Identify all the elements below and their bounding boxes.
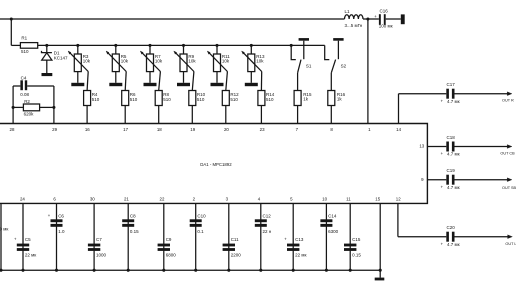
svg-text:S1: S1	[306, 64, 312, 69]
svg-text:510: 510	[21, 49, 29, 54]
svg-text:C8: C8	[130, 213, 136, 218]
svg-text:6800: 6800	[166, 253, 177, 258]
svg-text:OUT CB: OUT CB	[500, 151, 515, 155]
svg-text:OUT R: OUT R	[502, 98, 514, 102]
svg-text:C20: C20	[447, 225, 456, 230]
svg-text:1.0: 1.0	[58, 229, 65, 234]
svg-text:L1: L1	[345, 9, 351, 14]
svg-text:100 мк: 100 мк	[379, 24, 393, 29]
svg-text:16: 16	[85, 127, 90, 132]
svg-text:C6: C6	[58, 213, 64, 218]
svg-text:C4: C4	[21, 75, 27, 80]
svg-text:22: 22	[160, 197, 165, 202]
svg-text:R1: R1	[21, 36, 27, 41]
svg-text:10k: 10k	[121, 59, 129, 64]
svg-text:1k: 1k	[337, 97, 343, 102]
svg-text:0.15: 0.15	[352, 253, 361, 258]
svg-text:4.7 мк: 4.7 мк	[447, 185, 460, 190]
svg-text:6300: 6300	[328, 229, 339, 234]
svg-text:28: 28	[10, 127, 15, 132]
svg-text:C14: C14	[328, 213, 337, 218]
svg-text:20: 20	[224, 127, 229, 132]
svg-text:C11: C11	[231, 237, 239, 242]
svg-text:10k: 10k	[83, 59, 91, 64]
svg-text:22 мк: 22 мк	[25, 253, 36, 258]
svg-text:22 н: 22 н	[263, 229, 272, 234]
svg-text:17: 17	[123, 127, 128, 132]
svg-text:510: 510	[197, 97, 205, 102]
svg-text:1k: 1k	[303, 97, 309, 102]
svg-text:10k: 10k	[155, 59, 163, 64]
svg-text:510: 510	[230, 97, 238, 102]
svg-text:C9: C9	[166, 237, 172, 242]
svg-text:510: 510	[130, 97, 138, 102]
svg-text:620k: 620k	[24, 111, 35, 116]
svg-text:C18: C18	[447, 135, 456, 140]
svg-text:1000: 1000	[96, 253, 107, 258]
svg-text:OUT L: OUT L	[505, 242, 516, 246]
svg-text:30: 30	[90, 197, 95, 202]
svg-text:10: 10	[322, 197, 327, 202]
svg-text:C13: C13	[295, 237, 304, 242]
svg-text:4.7 мк: 4.7 мк	[447, 99, 460, 104]
svg-text:510: 510	[92, 97, 100, 102]
svg-text:10k: 10k	[188, 59, 196, 64]
svg-text:4.7 мк: 4.7 мк	[447, 152, 460, 157]
svg-text:C5: C5	[25, 237, 31, 242]
svg-text:C7: C7	[96, 237, 102, 242]
svg-text:12: 12	[396, 197, 401, 202]
svg-text:29: 29	[52, 127, 57, 132]
svg-text:C15: C15	[352, 237, 361, 242]
svg-text:11: 11	[346, 197, 351, 202]
svg-text:18: 18	[157, 127, 162, 132]
svg-text:510: 510	[163, 97, 171, 102]
svg-text:DA1 - MPC1892: DA1 - MPC1892	[200, 162, 232, 167]
svg-text:C12: C12	[263, 213, 272, 218]
svg-text:0.1: 0.1	[197, 229, 204, 234]
svg-text:14: 14	[396, 127, 401, 132]
svg-text:10k: 10k	[256, 59, 264, 64]
svg-text:10k: 10k	[222, 59, 230, 64]
svg-text:24: 24	[20, 197, 25, 202]
svg-text:C16: C16	[380, 8, 389, 13]
svg-text:22 мк: 22 мк	[295, 253, 306, 258]
svg-text:13: 13	[419, 144, 424, 149]
svg-text:15: 15	[375, 197, 380, 202]
svg-text:19: 19	[190, 127, 195, 132]
svg-text:23: 23	[260, 127, 265, 132]
svg-text:3...5 мГн: 3...5 мГн	[345, 23, 363, 28]
svg-text:C17: C17	[447, 82, 456, 87]
svg-text:0.08: 0.08	[20, 92, 29, 97]
svg-text:R2: R2	[24, 99, 30, 104]
svg-text:S2: S2	[341, 64, 347, 69]
svg-text:C10: C10	[197, 213, 206, 218]
svg-text:2200: 2200	[231, 253, 242, 258]
svg-text:0.15: 0.15	[130, 229, 139, 234]
svg-text:KC147: KC147	[54, 55, 68, 60]
svg-text:4.7 мк: 4.7 мк	[447, 242, 460, 247]
svg-text:OUT SB: OUT SB	[502, 186, 516, 190]
svg-text:21: 21	[124, 197, 129, 202]
svg-text:510: 510	[266, 97, 274, 102]
svg-text:0 мк: 0 мк	[0, 227, 8, 232]
svg-text:C19: C19	[447, 168, 456, 173]
